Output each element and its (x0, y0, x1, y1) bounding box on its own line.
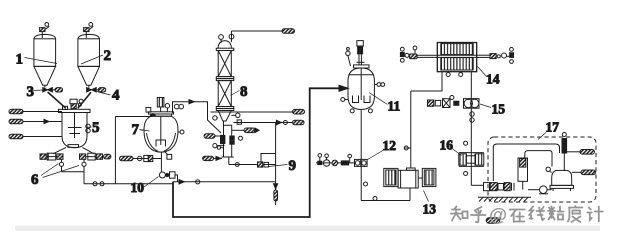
faint bottom band (15, 226, 600, 232)
reactor 5 (59, 106, 91, 148)
outlet capsule below platform (486, 218, 500, 223)
leader 10 (144, 177, 159, 188)
feed group to vessel 7 (120, 155, 162, 161)
column bottoms pipe (222, 121, 234, 165)
leader 8 (231, 91, 240, 96)
sight glasses on vessel 5 (86, 124, 90, 133)
nozzle valve reactor 11 top left (346, 48, 351, 67)
pump 13 (384, 168, 436, 188)
svg-text:4: 4 (112, 88, 120, 104)
condenser tube in 17 (518, 158, 528, 190)
dashed enclosure 17 (488, 137, 596, 202)
valve 3 (43, 85, 63, 92)
leader 13 (424, 191, 429, 202)
valve group 10 (159, 172, 177, 182)
leader 2 (81, 55, 103, 64)
svg-text:1: 1 (16, 52, 24, 68)
sight tube in 17 (562, 133, 567, 172)
valve pair 12 on pipe (355, 159, 368, 166)
fittings near column cone (213, 113, 243, 148)
overhead vapour pipe 7 to column (173, 100, 222, 133)
sight glass pair on overhead (174, 104, 183, 109)
bottoms header y164 (229, 164, 276, 166)
drain valve right (82, 159, 86, 171)
side inlet capsule at valves (204, 134, 221, 138)
top header pipe to vessel 7 (115, 116, 152, 118)
down pipe from condenser 14 (470, 72, 472, 186)
svg-text:3: 3 (27, 84, 35, 100)
sight glass pair reactor 11 (374, 83, 384, 87)
bottoms valve R (230, 136, 234, 144)
pump 16 (459, 153, 484, 167)
overhead line column 8 (232, 29, 295, 34)
valve on feed wire (79, 99, 83, 103)
stirrer motor M7 (157, 98, 164, 113)
inlet pipe end B (9, 119, 62, 124)
motor M11 (357, 41, 365, 65)
pump 6 left (40, 153, 63, 161)
bypass jog (261, 154, 276, 165)
drain spout below transfer line (274, 182, 278, 205)
inlet pipe end C (9, 134, 63, 139)
svg-text:14: 14 (486, 72, 500, 87)
drain valve left (59, 159, 63, 171)
column 8 vents (219, 31, 234, 43)
circles at pump 16 (464, 141, 468, 175)
valve circle on bottoms header (235, 163, 239, 167)
leader 5 (87, 126, 92, 129)
reactor 11 bottom pipe (360, 109, 362, 200)
drain header (62, 172, 174, 184)
bottom outlet vessel 7 (160, 153, 162, 173)
reflux line y122 (233, 120, 304, 125)
svg-text:8: 8 (240, 84, 248, 100)
down pipe x275 (275, 123, 277, 182)
bottoms valve L (221, 135, 225, 143)
leaders 6 (41, 164, 79, 178)
condenser 14 (437, 43, 476, 72)
vent capsule right (232, 128, 259, 133)
pump 6 right (80, 153, 111, 160)
svg-text:7: 7 (132, 122, 140, 138)
bottom fittings reactor 11 (341, 98, 373, 113)
svg-text:5: 5 (92, 120, 100, 136)
leader 7 (140, 130, 150, 132)
nozzle box vessel 7 bottom right (165, 152, 172, 159)
vent capsule 17 top (567, 150, 595, 155)
pipe 13 to condenser 14 (404, 72, 442, 171)
leader 12 (368, 150, 385, 160)
bottom run to pump 13 (361, 188, 410, 201)
nozzle dome on vessel 7 top left (150, 114, 155, 117)
filter train in 17 (484, 183, 515, 191)
filter row 15 (428, 96, 459, 108)
svg-text:6: 6 (31, 172, 39, 188)
inlet pipe end A (9, 109, 62, 114)
drain circle below valve L (217, 146, 223, 149)
leader 1 (25, 58, 58, 64)
svg-text:11: 11 (388, 99, 401, 114)
svg-text:10: 10 (131, 180, 145, 195)
leader 11 (369, 93, 388, 105)
flush inlet capsule (203, 156, 222, 160)
receiver drum in 17 (546, 167, 574, 191)
svg-text:17: 17 (546, 120, 560, 135)
feed row 12 (316, 154, 355, 167)
stirrer motor M5 (70, 99, 81, 108)
hopper 1 top vent valve (40, 23, 50, 39)
hopper 2 (78, 34, 100, 85)
column 8 dome (216, 41, 234, 51)
valve group right of 14 (490, 48, 514, 64)
valve 4 (87, 85, 106, 92)
svg-text:13: 13 (423, 202, 437, 217)
leader 16 (450, 147, 462, 156)
inner header in 17 (525, 151, 552, 167)
svg-text:9: 9 (289, 158, 297, 174)
circles below pump 15 (470, 112, 474, 122)
hopper 2 top vent valve (84, 23, 94, 39)
recycle loop pipe (173, 88, 340, 217)
cone outlet of vessel 5 (53, 145, 94, 154)
svg-text:2: 2 (104, 48, 112, 64)
leader 15 (480, 104, 491, 108)
svg-text:15: 15 (492, 102, 506, 117)
platform hatching (478, 197, 531, 201)
svg-text:@: @ (489, 204, 507, 225)
cooling line at column flange (211, 109, 305, 114)
pipe into unit 17 (471, 184, 483, 186)
leader 4 (97, 92, 111, 96)
leader 17 (538, 133, 546, 140)
vent capsule 17 lower (572, 170, 596, 175)
drain circle on pipe (364, 182, 368, 186)
reactor 11 (348, 65, 374, 110)
column 8 body (216, 51, 234, 122)
circles below condenser (446, 73, 463, 77)
steam inlet pipe 14 (417, 55, 437, 57)
hopper 1 (34, 34, 56, 85)
svg-text:12: 12 (383, 138, 397, 153)
steam valve group left of 14 (400, 46, 417, 62)
outlet pipe right of 14 (477, 55, 490, 57)
wire valve4 to vessel5 (78, 92, 91, 108)
drain header valves (93, 182, 104, 186)
leader 9 (269, 165, 288, 167)
arrow into reactor 11 (339, 85, 348, 91)
pump 15 (464, 99, 480, 109)
leader 3 (34, 89, 43, 92)
valve 9 (258, 162, 269, 167)
transfer line y181 (173, 180, 276, 184)
sight glass vessel 7 right (141, 130, 185, 134)
nozzle box on vessel 7 left (146, 108, 151, 113)
svg-text:16: 16 (440, 138, 454, 153)
riser pipe (114, 117, 116, 184)
wire valve3 to vessel5 (48, 92, 66, 108)
vessel 7 (144, 112, 178, 152)
leader 14 (478, 67, 487, 77)
vent valve on vessel 7 (165, 104, 169, 113)
vacuum pump in 17 (528, 186, 552, 194)
watermark 知乎@在线粘度计 (drawn as vector strokes) (451, 204, 603, 225)
vacuum pipe header in 17 (493, 144, 559, 181)
